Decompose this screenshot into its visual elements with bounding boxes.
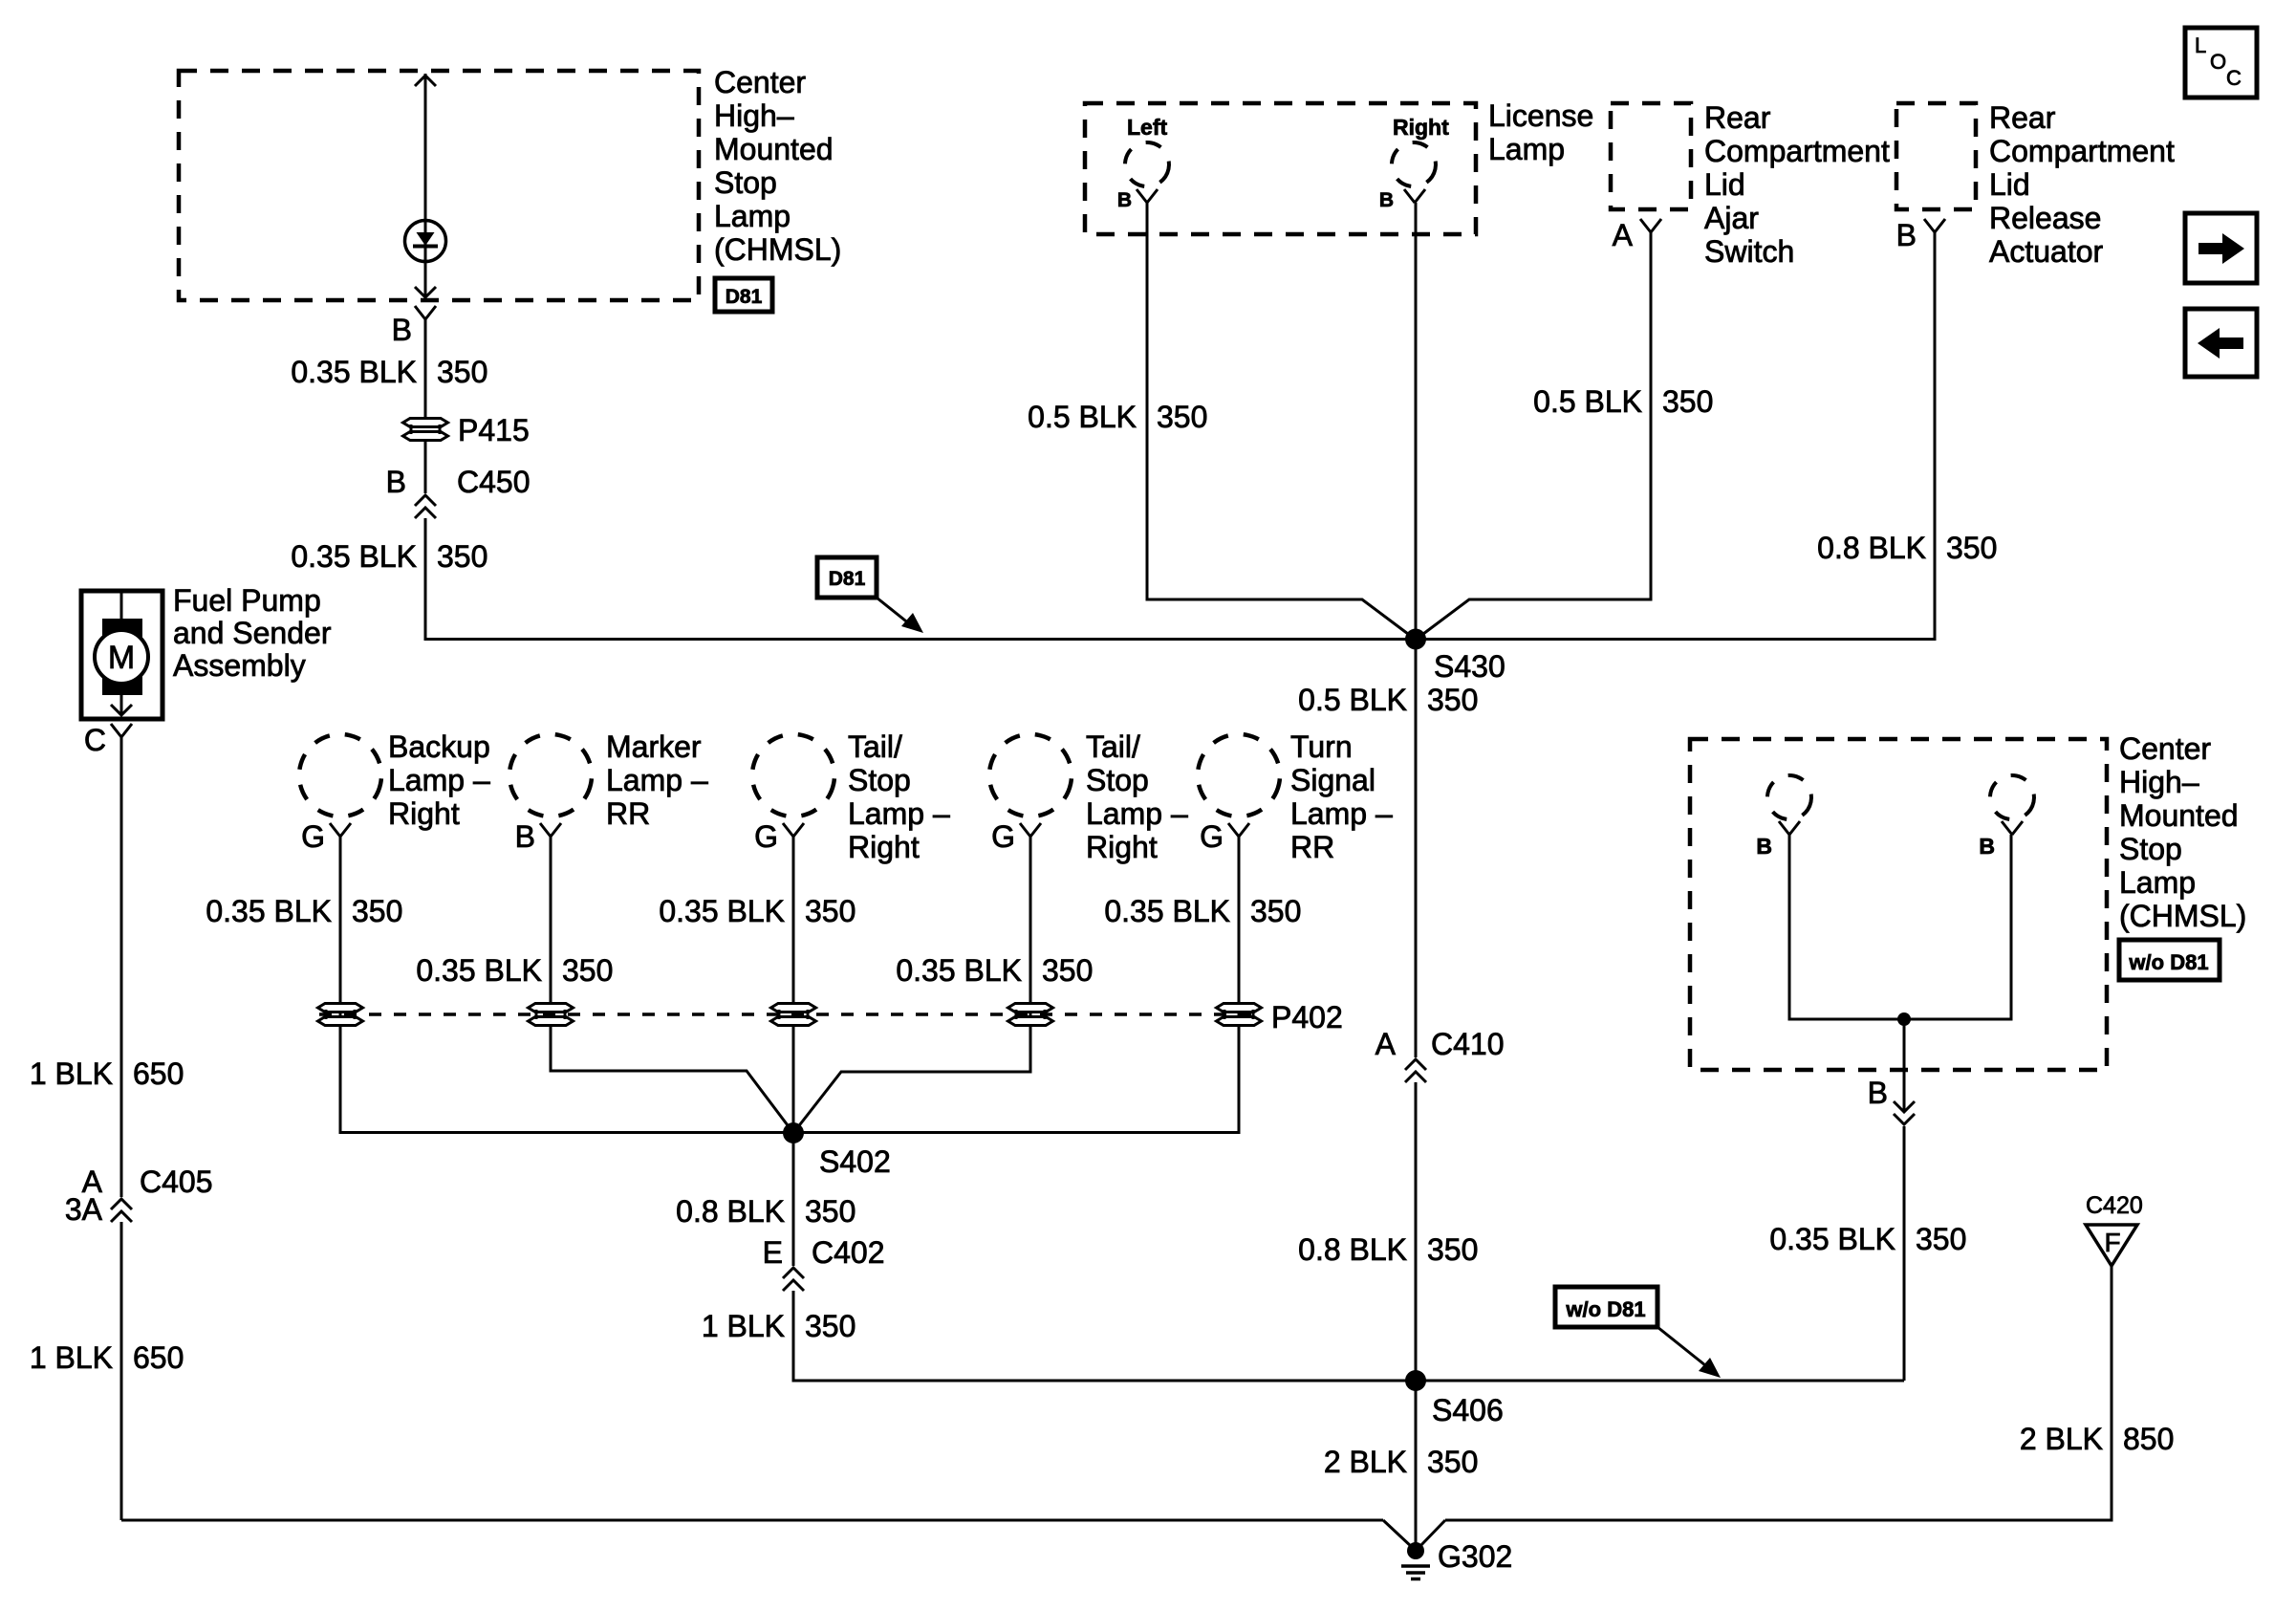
svg-text:Ajar: Ajar xyxy=(1704,201,1759,235)
svg-text:E: E xyxy=(763,1235,783,1270)
svg-text:Center: Center xyxy=(714,65,806,99)
svg-text:Mounted: Mounted xyxy=(714,132,834,166)
svg-text:RR: RR xyxy=(1290,830,1334,864)
lamp: License Lamp Left bulb xyxy=(1121,139,1174,191)
svg-text:B: B xyxy=(1868,1076,1888,1110)
label: w/o D81 callout box with leader arrow to bus xyxy=(1555,1287,1657,1327)
svg-text:(CHMSL): (CHMSL) xyxy=(714,232,841,267)
svg-text:L: L xyxy=(2195,33,2206,57)
svg-text:B: B xyxy=(515,819,535,854)
svg-text:F: F xyxy=(2104,1228,2120,1257)
svg-text:850: 850 xyxy=(2123,1422,2174,1456)
wire: 0.5 BLK 350 right license lamp to S430 xyxy=(1415,203,1418,639)
svg-text:Lamp –: Lamp – xyxy=(1086,796,1188,831)
lamp box: Center High-Mounted Stop Lamp (CHMSL) w/o D81 (dashed outline) xyxy=(1690,739,2107,1070)
svg-text:350: 350 xyxy=(562,953,613,988)
svg-text:0.35 BLK: 0.35 BLK xyxy=(206,894,332,928)
wire: 0.35 BLK 350 from C450 down to rear bus xyxy=(424,518,427,641)
svg-text:2 BLK: 2 BLK xyxy=(2020,1422,2103,1456)
pin B of CHMSL xyxy=(415,306,425,319)
svg-text:350: 350 xyxy=(1662,384,1713,419)
wire: 1 BLK 650 from C405 to ground bus xyxy=(120,1222,123,1520)
node S406 splice xyxy=(1405,1370,1426,1391)
pin B of CHMSL right bulb xyxy=(2002,821,2012,835)
wire: CHMSL internal lead (x=445) with terminal arrows xyxy=(424,74,427,297)
svg-text:0.5 BLK: 0.5 BLK xyxy=(1298,683,1407,717)
connector C402 pin E (in-line, double chevron) xyxy=(783,1268,804,1278)
wire: 0.5 BLK 350 left license lamp to S430 xyxy=(1147,203,1416,640)
wire: 0.35 BLK 350 from CHMSL pin B to P415 xyxy=(424,319,427,419)
wire: 1 BLK 650 from fuel pump pin C to C405 xyxy=(120,737,123,1197)
svg-text:0.35 BLK: 0.35 BLK xyxy=(896,953,1022,988)
svg-text:Lamp: Lamp xyxy=(2119,865,2196,900)
svg-text:Lamp –: Lamp – xyxy=(388,763,490,797)
svg-text:P415: P415 xyxy=(458,413,530,447)
svg-text:B: B xyxy=(386,465,406,499)
svg-text:Lamp –: Lamp – xyxy=(1290,796,1393,831)
wire: 2 BLK 850 from C420 to ground bus xyxy=(1445,1266,2112,1520)
svg-text:0.35 BLK: 0.35 BLK xyxy=(1104,894,1230,928)
wire: 0.35 BLK 350 turn signal lamp to S402 bus xyxy=(793,837,1239,1133)
pin B of release actuator xyxy=(1924,219,1935,232)
svg-text:350: 350 xyxy=(352,894,402,928)
wire: P415 to C450 xyxy=(424,441,427,493)
svg-text:P402: P402 xyxy=(1271,1000,1343,1034)
svg-text:O: O xyxy=(2210,50,2226,74)
svg-text:Stop: Stop xyxy=(2119,832,2182,866)
svg-text:B: B xyxy=(1117,189,1132,211)
svg-text:350: 350 xyxy=(437,355,487,389)
lamp: Marker Lamp - RR (dashed bulb) xyxy=(502,727,599,824)
pin A of ajar switch xyxy=(1640,219,1651,232)
svg-text:0.35 BLK: 0.35 BLK xyxy=(416,953,542,988)
svg-text:0.35 BLK: 0.35 BLK xyxy=(659,894,785,928)
svg-text:S430: S430 xyxy=(1434,649,1505,684)
svg-text:(CHMSL): (CHMSL) xyxy=(2119,899,2246,933)
svg-text:350: 350 xyxy=(437,539,487,574)
svg-text:Compartment: Compartment xyxy=(1704,134,1890,168)
wire: 0.35 BLK 350 marker lamp to S402 xyxy=(551,837,793,1133)
connector P402 grommet on Tail/Stop Lamp - Right (1) wire xyxy=(771,1004,816,1012)
label: w/o D81 option box under CHMSL text xyxy=(2119,940,2220,980)
svg-text:Rear: Rear xyxy=(1704,100,1771,135)
connector C450 pin B (in-line, double chevron) xyxy=(415,495,436,506)
lamp element: CHMSL LED symbol xyxy=(405,221,446,262)
svg-text:M: M xyxy=(108,640,135,676)
component box: Fuel Pump and Sender Assembly xyxy=(81,591,162,719)
wire: 0.35 BLK 350 tail/stop lamp 2 to S402 xyxy=(793,837,1030,1133)
lamp: Tail/Stop Lamp - Right (2) (dashed bulb) xyxy=(982,727,1079,824)
wire: bus jog into ground point (right) xyxy=(1419,1520,1445,1548)
pin B of right license lamp xyxy=(1404,189,1415,203)
svg-text:0.5 BLK: 0.5 BLK xyxy=(1028,400,1137,434)
svg-text:G: G xyxy=(754,819,778,854)
svg-text:1 BLK: 1 BLK xyxy=(702,1309,785,1343)
svg-text:0.35 BLK: 0.35 BLK xyxy=(1769,1222,1895,1256)
lamp: License Lamp Right bulb xyxy=(1388,139,1440,191)
svg-text:0.8 BLK: 0.8 BLK xyxy=(676,1194,785,1229)
svg-text:C420: C420 xyxy=(2086,1192,2143,1219)
wire: 0.8 BLK 350 from C410 to S406 xyxy=(1415,1082,1418,1381)
svg-text:High–: High– xyxy=(714,98,794,133)
connector P402 grommet on Turn Signal Lamp - RR wire xyxy=(1217,1004,1262,1012)
svg-text:Lamp: Lamp xyxy=(714,199,791,233)
svg-text:350: 350 xyxy=(1427,1232,1478,1267)
connector P415 grommet xyxy=(403,419,448,427)
svg-text:G302: G302 xyxy=(1438,1539,1512,1574)
svg-text:Stop: Stop xyxy=(1086,763,1149,797)
svg-text:Lamp –: Lamp – xyxy=(606,763,708,797)
lamp: CHMSL left bulb xyxy=(1764,772,1816,824)
wire: 0.35 BLK 350 from CHMSL to S406 bus xyxy=(1903,1126,1906,1381)
svg-text:Stop: Stop xyxy=(714,165,777,200)
svg-text:650: 650 xyxy=(133,1056,184,1091)
svg-text:Backup: Backup xyxy=(388,729,490,764)
svg-text:350: 350 xyxy=(1427,683,1478,717)
svg-text:Right: Right xyxy=(1393,115,1449,140)
svg-text:G: G xyxy=(991,819,1015,854)
svg-text:C402: C402 xyxy=(812,1235,885,1270)
pin G of Tail/Stop Lamp - Right (2) xyxy=(1020,823,1030,837)
svg-text:0.5 BLK: 0.5 BLK xyxy=(1533,384,1642,419)
svg-text:Actuator: Actuator xyxy=(1989,234,2104,269)
svg-text:C405: C405 xyxy=(140,1165,213,1199)
svg-text:Rear: Rear xyxy=(1989,100,2056,135)
wire: 0.5 BLK 350 ajar switch to S430 xyxy=(1416,232,1651,640)
svg-text:B: B xyxy=(1896,218,1917,252)
svg-text:1 BLK: 1 BLK xyxy=(30,1340,113,1375)
svg-text:C: C xyxy=(2226,66,2242,90)
svg-text:Signal: Signal xyxy=(1290,763,1375,797)
lamp box: License Lamp (dashed outline) xyxy=(1085,103,1476,234)
svg-text:0.8 BLK: 0.8 BLK xyxy=(1298,1232,1407,1267)
svg-text:Lid: Lid xyxy=(1704,167,1745,202)
svg-text:Assembly: Assembly xyxy=(173,648,306,683)
node: CHMSL internal junction xyxy=(1897,1012,1911,1026)
wire: 2 BLK 350 from S406 to ground G302 xyxy=(1415,1381,1418,1545)
connector P402 grommet on Marker Lamp - RR wire xyxy=(529,1004,574,1012)
svg-text:3A: 3A xyxy=(65,1192,103,1227)
svg-text:Lamp: Lamp xyxy=(1488,132,1565,166)
svg-text:350: 350 xyxy=(1250,894,1301,928)
node S430 splice xyxy=(1405,629,1426,650)
pin G of Backup Lamp - Right xyxy=(330,823,340,837)
svg-text:1 BLK: 1 BLK xyxy=(30,1056,113,1091)
svg-text:Tail/: Tail/ xyxy=(1086,729,1140,764)
svg-text:350: 350 xyxy=(1157,400,1207,434)
svg-text:Fuel Pump: Fuel Pump xyxy=(173,583,321,618)
ground G302 symbol xyxy=(1407,1542,1424,1559)
svg-text:Stop: Stop xyxy=(848,763,911,797)
icon: arrow-left box xyxy=(2185,309,2257,377)
svg-text:0.35 BLK: 0.35 BLK xyxy=(291,539,417,574)
svg-text:B: B xyxy=(1756,834,1772,859)
svg-text:0.35 BLK: 0.35 BLK xyxy=(291,355,417,389)
svg-text:w/o D81: w/o D81 xyxy=(1565,1297,1645,1321)
svg-text:C450: C450 xyxy=(457,465,531,499)
node S402 splice xyxy=(783,1122,804,1143)
component box: Rear Compartment Lid Release Actuator (dashed) xyxy=(1896,103,1976,209)
lamp box: Center High-Mounted Stop Lamp (CHMSL) D81 (dashed outline) xyxy=(179,71,699,300)
connector C405 pin A cavity 3A (in-line, double chevron) xyxy=(111,1199,132,1209)
svg-text:G: G xyxy=(1200,819,1224,854)
svg-text:D81: D81 xyxy=(829,568,866,590)
svg-text:2 BLK: 2 BLK xyxy=(1324,1445,1407,1479)
svg-text:Release: Release xyxy=(1989,201,2101,235)
label: D81 option box under CHMSL text xyxy=(715,278,772,312)
svg-text:S402: S402 xyxy=(819,1144,891,1179)
svg-text:Lamp –: Lamp – xyxy=(848,796,950,831)
motor M symbol of fuel pump xyxy=(120,593,123,621)
svg-text:350: 350 xyxy=(1427,1445,1478,1479)
svg-text:A: A xyxy=(1613,218,1634,252)
wire: 0.8 BLK 350 release actuator to bus xyxy=(1934,232,1937,641)
svg-text:C410: C410 xyxy=(1431,1027,1505,1061)
wire: CHMSL internal leads joining bulbs xyxy=(1789,835,2011,1019)
svg-text:Left: Left xyxy=(1127,115,1168,140)
svg-text:Switch: Switch xyxy=(1704,234,1794,269)
svg-text:RR: RR xyxy=(606,796,650,831)
wire: 0.8 BLK 350 from S402 to C402 xyxy=(792,1133,795,1266)
pin C of fuel pump xyxy=(111,724,121,737)
svg-text:350: 350 xyxy=(1916,1222,1966,1256)
svg-text:Compartment: Compartment xyxy=(1989,134,2175,168)
svg-text:G: G xyxy=(301,819,325,854)
svg-text:Tail/: Tail/ xyxy=(848,729,902,764)
svg-text:and Sender: and Sender xyxy=(173,616,332,650)
wire: 0.35 BLK 350 backup lamp to S402 bus xyxy=(340,837,793,1133)
connector P402 grommet on Backup Lamp - Right wire xyxy=(318,1004,363,1012)
connector P402 grommet on Tail/Stop Lamp - Right (2) wire xyxy=(1008,1004,1053,1012)
lamp: CHMSL right bulb xyxy=(1986,772,2039,824)
svg-text:350: 350 xyxy=(805,1194,856,1229)
lamp: Turn Signal Lamp - RR (dashed bulb) xyxy=(1190,727,1288,824)
svg-text:350: 350 xyxy=(805,894,856,928)
label: D81 callout box with leader arrow to bus xyxy=(817,557,877,598)
svg-text:License: License xyxy=(1488,98,1593,133)
svg-text:Right: Right xyxy=(388,796,460,831)
svg-text:B: B xyxy=(1979,834,1995,859)
svg-text:w/o D81: w/o D81 xyxy=(2128,950,2208,974)
svg-text:350: 350 xyxy=(1946,531,1997,565)
svg-text:High–: High– xyxy=(2119,765,2199,799)
component box: Rear Compartment Lid Ajar Switch (dashed) xyxy=(1611,103,1691,209)
svg-text:B: B xyxy=(1379,189,1394,211)
pin B of Marker Lamp - RR xyxy=(540,823,551,837)
wire: 0.35 BLK 350 tail/stop lamp to S402 xyxy=(792,837,795,1133)
svg-text:Lid: Lid xyxy=(1989,167,2030,202)
svg-text:Mounted: Mounted xyxy=(2119,798,2239,833)
svg-text:350: 350 xyxy=(1042,953,1093,988)
svg-text:D81: D81 xyxy=(726,286,763,308)
svg-text:650: 650 xyxy=(133,1340,184,1375)
svg-text:B: B xyxy=(392,313,412,347)
lamp: Backup Lamp - Right (dashed bulb) xyxy=(292,727,389,824)
wire: P402 pass-through dashed line xyxy=(319,1012,1260,1016)
wire: bus from S406 to CHMSL (w/o D81) drop xyxy=(1416,1380,1904,1382)
svg-text:S406: S406 xyxy=(1432,1393,1504,1427)
pin G of Turn Signal Lamp - RR xyxy=(1228,823,1239,837)
pin B of left license lamp xyxy=(1137,189,1147,203)
svg-text:Center: Center xyxy=(2119,731,2211,766)
pin B of CHMSL left bulb xyxy=(1779,821,1789,835)
icon: LOC reference box xyxy=(2185,28,2257,98)
svg-text:0.8 BLK: 0.8 BLK xyxy=(1817,531,1926,565)
icon: arrow-right box xyxy=(2185,213,2257,283)
svg-text:Marker: Marker xyxy=(606,729,702,764)
svg-text:Right: Right xyxy=(848,830,920,864)
wire: 1 BLK 350 from C402 to S406 xyxy=(793,1291,1416,1381)
connector C410 pin A (in-line, double chevron) xyxy=(1405,1059,1426,1070)
svg-text:A: A xyxy=(1375,1027,1397,1061)
lamp: Tail/Stop Lamp - Right (1) (dashed bulb) xyxy=(745,727,842,824)
wire: ground bus from fuel pump branch xyxy=(121,1519,1383,1522)
svg-text:350: 350 xyxy=(805,1309,856,1343)
svg-text:Right: Right xyxy=(1086,830,1158,864)
svg-text:Turn: Turn xyxy=(1290,729,1353,764)
wire: 0.5 BLK 350 from S430 down to C410 xyxy=(1415,639,1418,1057)
pin G of Tail/Stop Lamp - Right (1) xyxy=(783,823,793,837)
wire: ground bus segment from CHMSL branch through S430 to release actuator drop xyxy=(424,638,1935,641)
wire: bus jog into ground point (left) xyxy=(1383,1520,1413,1548)
wire: CHMSL junction down through case xyxy=(1903,1019,1906,1110)
svg-text:C: C xyxy=(84,723,106,757)
